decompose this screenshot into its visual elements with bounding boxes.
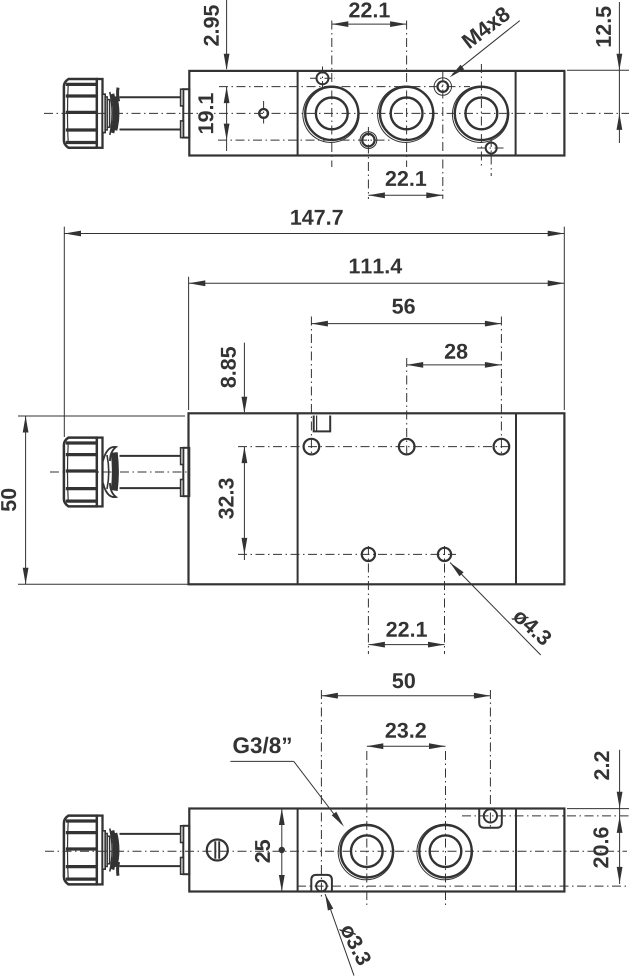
- dash-dot row through M4x8 hole: [219, 86, 470, 88]
- centerline knob axis (middle view): [50, 471, 189, 473]
- knob knurl lines: [66, 83, 97, 86]
- label G3/8 with leader: [233, 737, 290, 754]
- dimension 2.2 (bottom view right): [567, 808, 629, 810]
- dimension 8.85: [243, 343, 245, 412]
- knob locking pin: [118, 88, 119, 102]
- ø3.3 hole with rounded boss (bottom view): [311, 875, 332, 892]
- vertical centerline lower right hole: [490, 138, 492, 176]
- knob mounting flange: [183, 448, 189, 496]
- dimension 50 (middle view left): [18, 415, 185, 417]
- vertical dash-dot ø3.3 hole: [320, 690, 322, 897]
- port inner circle: [316, 98, 348, 130]
- vertical dash-dot hole row2 left: [367, 546, 369, 654]
- port thread arc: [417, 824, 473, 880]
- dimension 22.1 (middle view): [368, 644, 444, 646]
- label M4x8 with leader: [453, 21, 520, 75]
- vertical dash-dot hole row2 right: [444, 546, 446, 654]
- dash-dot row through lower pilot hole: [218, 139, 392, 141]
- port thread arc: [338, 824, 394, 880]
- label ø3.3 with leader: [325, 894, 354, 976]
- vertical dash-dot hole row1 right: [500, 317, 502, 457]
- dash-dot row through 2.2 hole: [462, 815, 629, 817]
- port inner circle: [351, 835, 383, 867]
- port outer circle: [305, 87, 358, 140]
- knob knurl lines: [66, 441, 97, 444]
- port thread arc: [303, 86, 359, 142]
- body section divider left (top view): [297, 71, 299, 156]
- dimension 22.1 top (between ports 1-2): [332, 23, 407, 25]
- knob shaft: [120, 96, 184, 98]
- vertical centerline port 3: [480, 64, 482, 166]
- vertical centerline port 2: [406, 21, 408, 168]
- knob face plate: [97, 438, 103, 507]
- knob rubber boot (side view): [114, 453, 115, 491]
- dash-dot crosshair of top-left hole: [310, 77, 335, 79]
- knob cone flare lower beak: [103, 483, 116, 497]
- dimension 20.6 (bottom view right): [617, 867, 623, 884]
- divider left (bottom view): [297, 809, 299, 892]
- pocket notch on top edge: [314, 416, 331, 432]
- vertical dash-dot hole row1 middle: [406, 358, 408, 456]
- knob shaft: [120, 455, 184, 457]
- divider right (bottom view): [515, 809, 517, 892]
- divider right (middle view): [515, 413, 517, 584]
- row1 hole right (middle view): [494, 439, 510, 455]
- vertical centerline port 1: [331, 21, 333, 168]
- top-left mounting hole: [317, 72, 329, 84]
- valve body (bottom view): [189, 809, 564, 892]
- M4x8 tapped hole: [438, 81, 449, 92]
- 2.2 hole with rounded boss (bottom view): [479, 809, 502, 828]
- port outer circle: [380, 87, 433, 140]
- manual override knob: knurled cap: [64, 438, 97, 507]
- dimension 22.1 bottom (top view): [368, 194, 442, 196]
- knob step rings: [103, 831, 106, 869]
- centerline knob axis (bottom view): [45, 850, 627, 852]
- dimension 23.2: [367, 745, 446, 747]
- vertical dash-dot 2.2 hole: [489, 690, 491, 830]
- dimension 56: [311, 323, 501, 325]
- knob mounting flange: [183, 89, 189, 137]
- knob rubber boot: [110, 829, 112, 872]
- port outer circle: [455, 87, 508, 140]
- small pilot hole left section (top view): [263, 101, 265, 126]
- dash-dot row 1 (middle view): [238, 446, 512, 448]
- manual override knob: knurled cap: [64, 79, 97, 148]
- knob knurl lines: [66, 819, 97, 822]
- knob step rings: [103, 94, 106, 132]
- knob face plate: [97, 816, 103, 885]
- port outer circle: [419, 825, 471, 877]
- dimension 25 (bottom view): [281, 809, 283, 892]
- dash-dot row 2 (middle view): [238, 553, 456, 555]
- dimension 28: [407, 364, 502, 366]
- dimension 147.7: [63, 227, 65, 437]
- knob mounting flange: [183, 826, 189, 874]
- dash-dot row through lower right hole: [477, 147, 506, 149]
- dimension 19.1 (top view): [226, 87, 228, 151]
- knob locking pin: [118, 862, 119, 876]
- port inner circle: [430, 835, 462, 867]
- port inner circle: [466, 98, 498, 130]
- row2 hole left (middle view): [362, 548, 375, 561]
- port outer circle: [341, 825, 393, 877]
- lower right hole: [486, 143, 497, 154]
- row1 hole left (middle view): [304, 439, 320, 455]
- row2 hole right (ø4.3) (middle view): [438, 548, 451, 561]
- vertical centerline M4x8 hole: [442, 72, 444, 199]
- divider left (middle view): [297, 413, 299, 584]
- dimension 50 (bottom view): [321, 695, 490, 697]
- dimension 111.4: [188, 277, 190, 410]
- port thread arc: [378, 86, 434, 142]
- dimension 12.5 (top view right): [567, 69, 629, 71]
- port thread arc: [452, 86, 508, 142]
- centerline (horizontal axis, top view): [44, 112, 629, 114]
- body section divider right (top view): [515, 71, 517, 156]
- valve body (middle view): [189, 413, 565, 584]
- vertical dash-dot port A (bottom view): [366, 751, 368, 905]
- knob cone flare upper beak: [103, 447, 116, 461]
- dash-dot row through ø3.3 hole: [297, 885, 629, 887]
- knob face plate: [97, 79, 103, 148]
- slotted screw (bottom view): [207, 840, 228, 861]
- knob shaft: [120, 833, 184, 835]
- row1 hole middle (middle view): [399, 439, 415, 455]
- vertical centerline lower pilot hole: [367, 127, 369, 199]
- lower pilot hole with ring: [362, 134, 374, 146]
- dimension 32.3: [243, 447, 245, 560]
- port inner circle: [391, 98, 423, 130]
- label ø4.3 with leader: [450, 563, 541, 656]
- knob rubber boot: [110, 92, 112, 135]
- vertical dash-dot hole row1 left: [310, 317, 312, 457]
- vertical dash-dot port B (bottom view): [445, 751, 447, 905]
- dimension 2.95 (top view): [226, 0, 228, 69]
- manual override knob: knurled cap: [64, 816, 97, 885]
- valve body (top view): [189, 71, 564, 156]
